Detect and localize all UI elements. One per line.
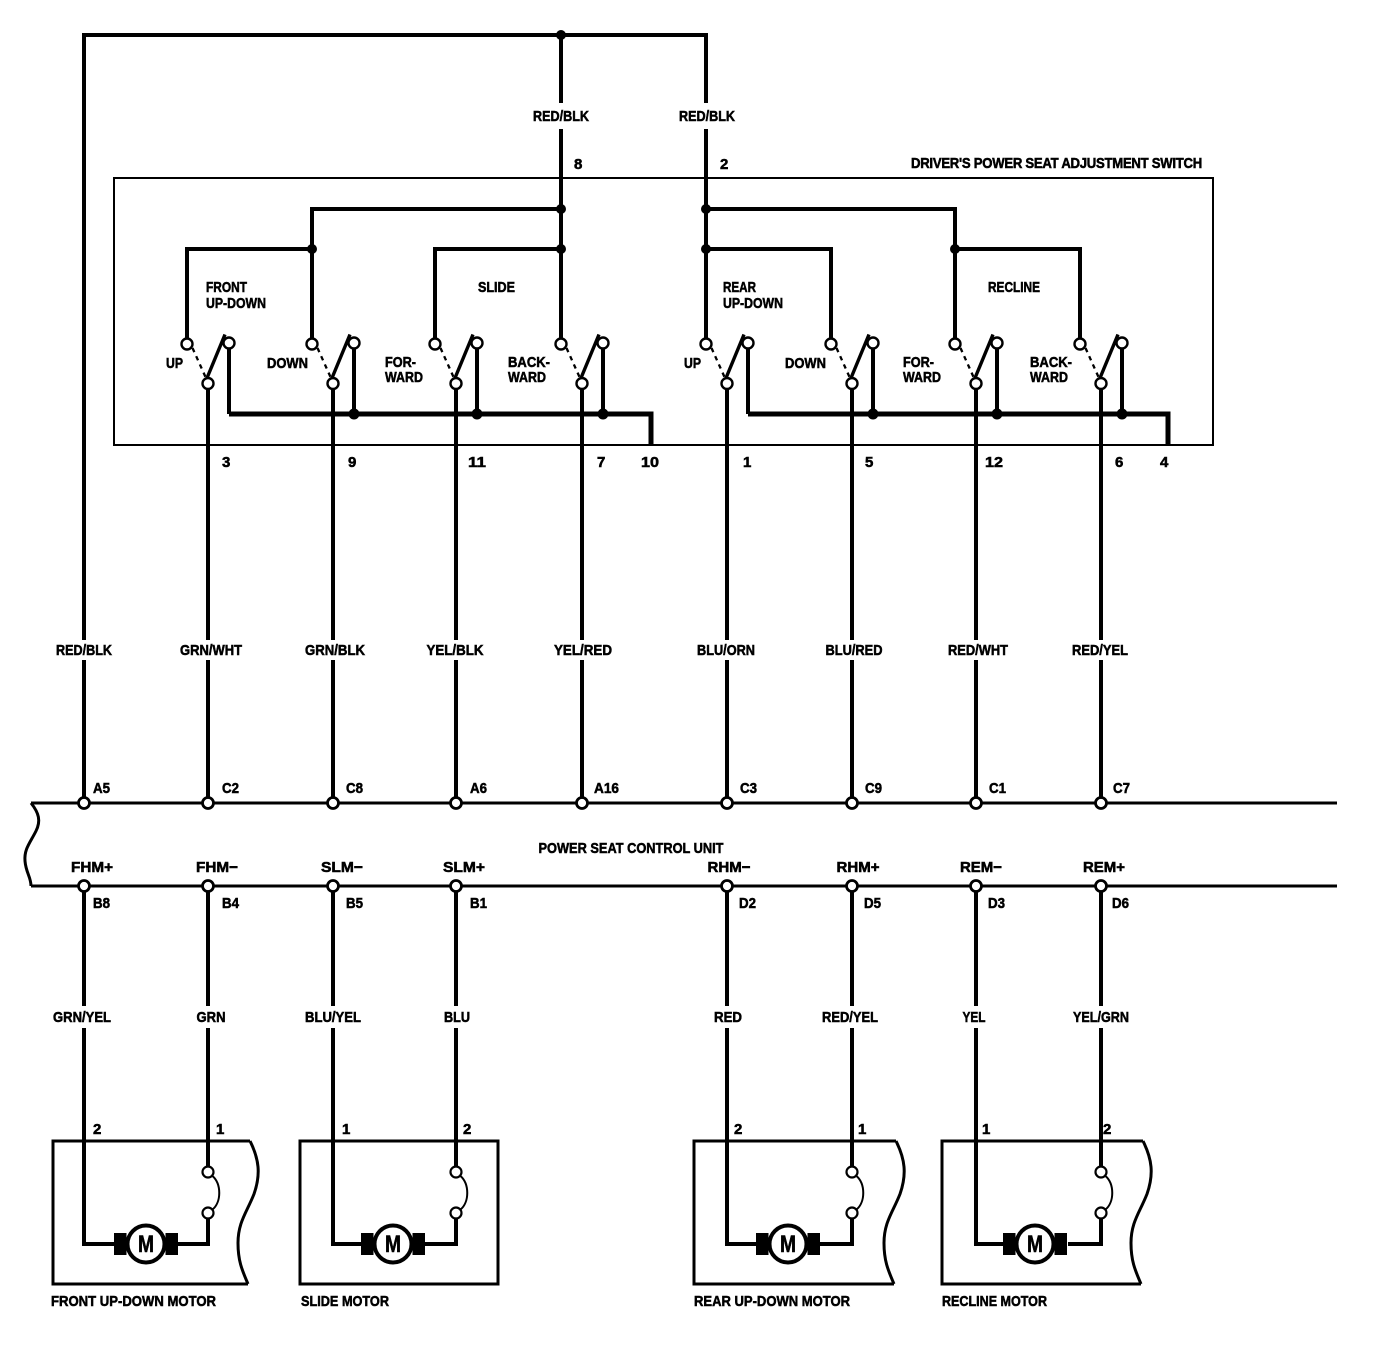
svg-text:GRN/YEL: GRN/YEL [53, 1009, 111, 1026]
svg-text:BLU: BLU [444, 1009, 470, 1026]
terminal ring B4 [203, 881, 214, 892]
svg-text:11: 11 [468, 454, 486, 471]
wire: pin 12 lead (recline forward common, RED/WHT) [974, 389, 978, 798]
svg-text:SLIDE MOTOR: SLIDE MOTOR [301, 1293, 389, 1310]
terminal ring C7 [1096, 798, 1107, 809]
svg-text:6: 6 [1115, 454, 1123, 471]
wire: D5 to rear motor + (RED/YEL) [819, 892, 852, 1246]
node: bus junction DOWN [349, 409, 360, 420]
box: front up-down motor (torn right edge) [53, 1141, 258, 1284]
wire: D6 to recline motor + (YEL/GRN) [1068, 892, 1101, 1246]
wire: front UP feed drop [185, 247, 189, 339]
wire: RECLINE FORWARD right contact drop to bus [995, 345, 999, 414]
svg-text:SLM−: SLM− [321, 859, 363, 876]
svg-text:2: 2 [93, 1121, 101, 1138]
svg-text:D6: D6 [1112, 895, 1129, 912]
node: junction pin2/branch209 [701, 204, 711, 214]
wire: pin 5 lead (rear down common, BLU/RED) [850, 389, 854, 798]
svg-text:BLU/RED: BLU/RED [826, 642, 883, 659]
terminal ring B5 [328, 881, 339, 892]
svg-text:REM+: REM+ [1083, 859, 1125, 876]
box: power seat control unit bottom edge [31, 885, 1337, 888]
svg-text:2: 2 [734, 1121, 742, 1138]
wire: B4 to front motor - (GRN) [176, 892, 208, 1246]
svg-text:DOWN: DOWN [267, 355, 308, 372]
wire: D2 to rear motor - (RED) [725, 892, 758, 1246]
switch: slide FORWARD [430, 335, 483, 390]
wire: RECLINE BACKWARD right contact drop to bus [1120, 345, 1124, 414]
svg-text:FHM+: FHM+ [71, 859, 113, 876]
svg-text:RED/YEL: RED/YEL [1072, 642, 1128, 659]
svg-text:C8: C8 [346, 780, 363, 797]
svg-text:YEL/BLK: YEL/BLK [427, 642, 484, 659]
svg-text:REAR UP-DOWN MOTOR: REAR UP-DOWN MOTOR [694, 1293, 850, 1310]
wire: B1 to slide motor + (BLU) [424, 892, 456, 1246]
svg-text:A16: A16 [594, 780, 619, 797]
box: rear up-down motor (torn right edge) [694, 1141, 904, 1284]
svg-text:2: 2 [1103, 1121, 1111, 1138]
terminal ring A16 [577, 798, 588, 809]
box: power seat control unit top edge [31, 802, 1337, 805]
svg-text:2: 2 [463, 1121, 471, 1138]
terminal ring B8 [79, 881, 90, 892]
wire: rear DOWN feed drop [829, 247, 833, 339]
svg-text:BLU/YEL: BLU/YEL [305, 1009, 361, 1026]
wire: branch y209 right (pin2 to recline) [706, 207, 955, 211]
terminal ring C8 [328, 798, 339, 809]
node: junction on top feed [556, 30, 566, 40]
switch: rear up-down UP [701, 335, 754, 390]
wire: UP right contact drop to bus [227, 345, 231, 414]
svg-text:C9: C9 [865, 780, 882, 797]
wire: right common bus to pin 4 [748, 414, 1168, 445]
node: junction recline branch [950, 244, 960, 254]
node: bus junction RECLINE BACKWARD [1117, 409, 1128, 420]
svg-text:9: 9 [348, 454, 356, 471]
svg-text:POWER SEAT CONTROL UNIT: POWER SEAT CONTROL UNIT [539, 840, 724, 857]
svg-text:RED/BLK: RED/BLK [679, 108, 735, 125]
terminal ring D5 [847, 881, 858, 892]
svg-text:1: 1 [216, 1121, 224, 1138]
box: slide motor [300, 1141, 498, 1284]
box: power seat control unit torn left edge [25, 803, 39, 886]
wire: DOWN right contact drop to bus [352, 345, 356, 414]
node: junction pin8/branch209 [556, 204, 566, 214]
wire: REAR DOWN right contact drop to bus [871, 345, 875, 414]
svg-text:D3: D3 [988, 895, 1005, 912]
svg-text:WARD: WARD [508, 369, 546, 386]
svg-text:YEL/RED: YEL/RED [554, 642, 612, 659]
svg-text:DOWN: DOWN [785, 355, 826, 372]
svg-text:1: 1 [342, 1121, 350, 1138]
wire: B5 to slide motor - (BLU/YEL) [331, 892, 362, 1246]
svg-text:1: 1 [743, 454, 751, 471]
svg-text:FHM−: FHM− [196, 859, 238, 876]
svg-text:SLIDE: SLIDE [478, 279, 515, 296]
connector: front motor inline connector [203, 1167, 220, 1219]
terminal ring D3 [971, 881, 982, 892]
svg-text:GRN: GRN [197, 1009, 226, 1026]
svg-text:B1: B1 [470, 895, 487, 912]
terminal ring A6 [451, 798, 462, 809]
wire: B8 to front motor + (GRN/YEL) [82, 892, 115, 1246]
wire: recline feed drop upper [953, 207, 957, 249]
svg-text:D5: D5 [864, 895, 881, 912]
svg-text:RED/WHT: RED/WHT [948, 642, 1008, 659]
wire: left common bus to pin 10 [229, 414, 651, 445]
svg-text:RED/BLK: RED/BLK [533, 108, 589, 125]
svg-text:UP: UP [684, 355, 701, 372]
terminal ring A5 [79, 798, 90, 809]
terminal ring D6 [1096, 881, 1107, 892]
svg-text:UP: UP [166, 355, 183, 372]
svg-text:B8: B8 [93, 895, 110, 912]
wire: front up-down right feed drop [310, 207, 314, 339]
motor M: front up-down [114, 1226, 178, 1263]
terminal ring B1 [451, 881, 462, 892]
wire: branch y249 to slide FORWARD [435, 247, 561, 251]
wire: branch y249 to front UP [187, 247, 312, 251]
wire: pin 9 lead (front down common, GRN/BLK) [331, 389, 335, 798]
svg-text:C3: C3 [740, 780, 757, 797]
wire: REAR UP right contact drop to bus [746, 345, 750, 414]
svg-text:1: 1 [982, 1121, 990, 1138]
svg-text:GRN/WHT: GRN/WHT [180, 642, 242, 659]
svg-text:GRN/BLK: GRN/BLK [305, 642, 365, 659]
node: bus junction REAR DOWN [868, 409, 879, 420]
node: junction pin8/branch249 [556, 244, 566, 254]
svg-text:B4: B4 [222, 895, 240, 912]
wire: left feed vertical to A5 (RED/BLK) [82, 33, 86, 798]
terminal ring C9 [847, 798, 858, 809]
wire: recline FORWARD feed drop [953, 249, 957, 339]
motor M: rear up-down [756, 1226, 820, 1263]
svg-text:UP-DOWN: UP-DOWN [206, 295, 266, 312]
terminal ring C2 [203, 798, 214, 809]
svg-text:12: 12 [985, 454, 1003, 471]
node: bus junction RECLINE FORWARD [992, 409, 1003, 420]
svg-text:REAR: REAR [723, 279, 756, 296]
switch: recline FORWARD [950, 335, 1003, 390]
wire: pin 1 lead (rear up common, BLU/ORN) [725, 389, 729, 798]
svg-text:WARD: WARD [903, 369, 941, 386]
svg-text:1: 1 [858, 1121, 866, 1138]
terminal ring D2 [722, 881, 733, 892]
svg-text:8: 8 [574, 156, 582, 173]
svg-text:7: 7 [597, 454, 605, 471]
svg-text:FRONT UP-DOWN MOTOR: FRONT UP-DOWN MOTOR [51, 1293, 216, 1310]
wire: pin 3 lead (front up common, GRN/WHT) [206, 389, 210, 798]
wire: slide FORWARD feed drop [433, 247, 437, 339]
terminal ring C1 [971, 798, 982, 809]
node: bus junction FORWARD [472, 409, 483, 420]
wire: pin 7 lead (slide backward common, YEL/RED) [580, 389, 584, 798]
svg-text:DRIVER'S POWER SEAT ADJUSTMENT: DRIVER'S POWER SEAT ADJUSTMENT SWITCH [911, 155, 1202, 172]
svg-text:WARD: WARD [385, 369, 423, 386]
wire: pin 2 feed vertical (RED/BLK) [704, 33, 708, 339]
svg-text:BLU/ORN: BLU/ORN [697, 642, 755, 659]
wire: branch y249 to rear DOWN [706, 247, 831, 251]
wire: BACKWARD right contact drop to bus [601, 345, 605, 414]
node: junction front branch [307, 244, 317, 254]
svg-text:C1: C1 [989, 780, 1006, 797]
wire: pin 8 feed vertical (RED/BLK) [559, 35, 563, 339]
svg-text:YEL: YEL [963, 1009, 986, 1026]
svg-text:YEL/GRN: YEL/GRN [1073, 1009, 1129, 1026]
svg-text:2: 2 [720, 156, 728, 173]
box: recline motor (torn right edge) [942, 1141, 1151, 1284]
switch: front up-down DOWN [307, 335, 360, 390]
svg-text:A6: A6 [470, 780, 487, 797]
svg-text:C2: C2 [222, 780, 239, 797]
svg-text:5: 5 [865, 454, 873, 471]
svg-text:B5: B5 [346, 895, 363, 912]
svg-text:RECLINE: RECLINE [988, 279, 1040, 296]
connector: slide motor inline connector [451, 1167, 468, 1219]
svg-text:RED/BLK: RED/BLK [56, 642, 112, 659]
wire: pin 11 lead (slide forward common, YEL/BLK) [454, 389, 458, 798]
switch: recline BACKWARD [1075, 335, 1128, 390]
svg-text:RECLINE MOTOR: RECLINE MOTOR [942, 1293, 1047, 1310]
wire: recline BACKWARD feed drop [1078, 247, 1082, 339]
svg-text:SLM+: SLM+ [443, 859, 485, 876]
motor M: recline [1003, 1226, 1067, 1263]
svg-text:4: 4 [1160, 454, 1169, 471]
wire: FORWARD right contact drop to bus [475, 345, 479, 414]
switch: slide BACKWARD [556, 335, 609, 390]
connector: recline motor inline connector [1096, 1167, 1113, 1219]
svg-text:UP-DOWN: UP-DOWN [723, 295, 783, 312]
connector: rear motor inline connector [847, 1167, 864, 1219]
wire: D3 to recline motor - (YEL) [974, 892, 1005, 1246]
terminal ring C3 [722, 798, 733, 809]
wire: top feed horizontal [84, 33, 706, 37]
switch: front up-down UP [182, 335, 235, 390]
svg-text:D2: D2 [739, 895, 756, 912]
svg-text:RHM+: RHM+ [837, 859, 880, 876]
wire: branch y249 to recline BACKWARD [955, 247, 1080, 251]
svg-text:10: 10 [641, 454, 659, 471]
svg-text:REM−: REM− [960, 859, 1002, 876]
motor M: slide [361, 1226, 425, 1263]
wire: pin 6 lead (recline backward common, RED/YEL) [1099, 389, 1103, 798]
svg-text:A5: A5 [93, 780, 110, 797]
box: driver's power seat adjustment switch [114, 178, 1213, 445]
svg-text:RED/YEL: RED/YEL [822, 1009, 878, 1026]
switch: rear up-down DOWN [826, 335, 879, 390]
svg-text:3: 3 [222, 454, 230, 471]
svg-text:C7: C7 [1113, 780, 1130, 797]
node: bus junction BACKWARD [598, 409, 609, 420]
node: junction pin2/branch249 [701, 244, 711, 254]
wire: branch y209 left (pin8 to front up-down) [312, 207, 561, 211]
svg-text:RHM−: RHM− [708, 859, 751, 876]
svg-text:RED: RED [714, 1009, 742, 1026]
svg-text:FRONT: FRONT [206, 279, 247, 296]
svg-text:WARD: WARD [1030, 369, 1068, 386]
